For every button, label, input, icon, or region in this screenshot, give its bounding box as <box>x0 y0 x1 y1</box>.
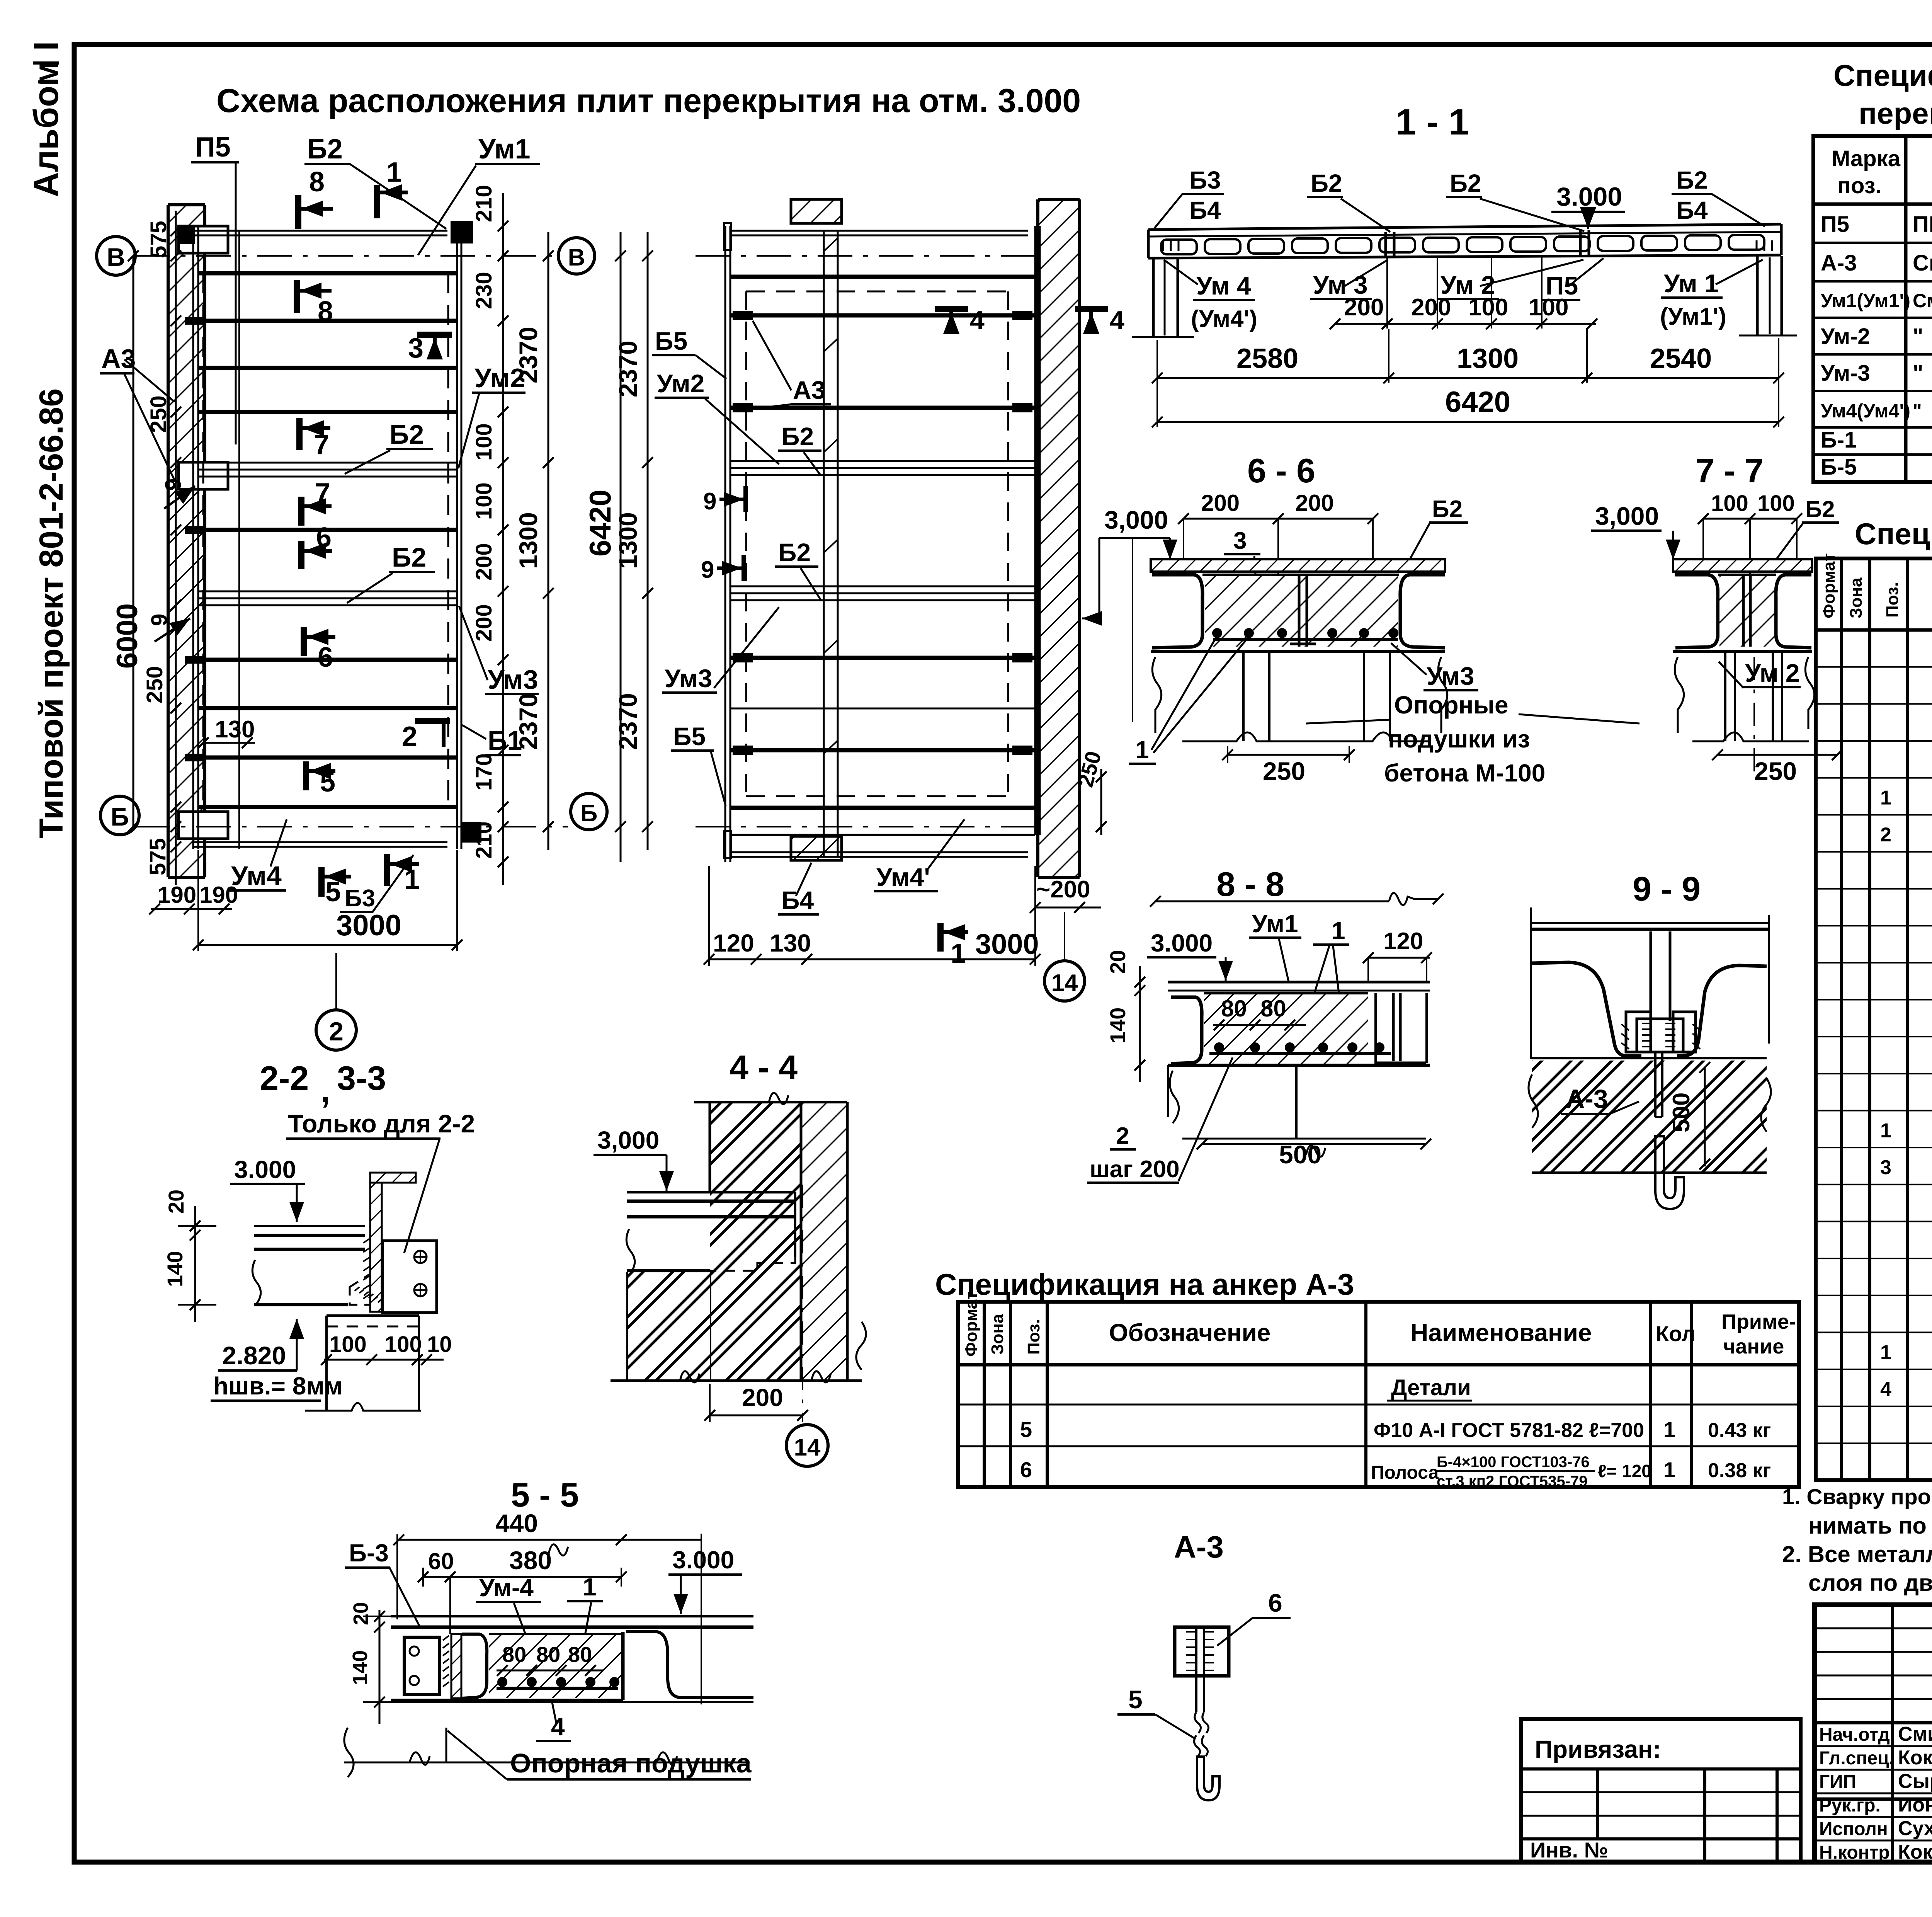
svg-text:Б4: Б4 <box>1676 196 1708 224</box>
section flag 3 up <box>408 333 452 364</box>
section flag 6b <box>304 627 335 673</box>
svg-text:Ум1(Ум1'): Ум1(Ум1') <box>1821 290 1910 312</box>
svg-text:Ум-2: Ум-2 <box>1821 324 1870 349</box>
svg-text:Б2: Б2 <box>389 419 424 449</box>
section 7-7 label B2 <box>1770 496 1839 568</box>
plan 2 beams with anchors <box>730 311 1035 755</box>
svg-text:2: 2 <box>1880 824 1891 846</box>
svg-text:1: 1 <box>951 938 966 969</box>
svg-text:Только для 2-2: Только для 2-2 <box>288 1109 475 1138</box>
detail 44 axis <box>802 1185 803 1422</box>
detail 22 dims 100 100 10 <box>321 1332 452 1365</box>
flag 4b plan2 <box>1075 306 1124 335</box>
svg-text:170: 170 <box>471 753 497 791</box>
detail 55 label Um-4 <box>476 1574 541 1643</box>
label P5 top <box>191 132 239 444</box>
svg-text:200: 200 <box>1411 294 1451 321</box>
detail 22 connection plate <box>363 1238 437 1313</box>
svg-text:Ум 1: Ум 1 <box>1664 269 1719 298</box>
section flag 6a <box>301 522 332 569</box>
section 9-9 plates <box>1532 962 1767 1056</box>
svg-text:А-3: А-3 <box>1566 1084 1608 1113</box>
detail 55 level mark <box>668 1546 742 1614</box>
svg-text:1. Сварку производить электр: 1. Сварку производить электродами Э-42 п… <box>1782 1485 1932 1509</box>
detail 55 beam and block <box>391 1632 753 1700</box>
svg-text:Б2: Б2 <box>1450 169 1481 197</box>
label A3 plan2 <box>753 321 831 409</box>
section 8-8 rebar <box>1209 1042 1391 1054</box>
detail 22 level mark <box>230 1156 305 1222</box>
section 7-7 level mark <box>1591 502 1680 560</box>
plan 2 top plate rod <box>724 223 1028 250</box>
svg-text:2: 2 <box>329 1017 344 1046</box>
section 1-1 title <box>1396 102 1469 143</box>
svg-text:Б-3: Б-3 <box>349 1539 389 1567</box>
svg-text:2370: 2370 <box>614 340 642 397</box>
svg-text:5: 5 <box>1128 1685 1143 1714</box>
section 7-7 supports <box>1675 652 1814 781</box>
spec table 2 <box>1816 553 1932 1480</box>
section flag 7a <box>299 418 330 460</box>
svg-text:Б5: Б5 <box>673 722 706 751</box>
section flag 8 top <box>298 167 333 229</box>
svg-text:8 - 8: 8 - 8 <box>1216 865 1284 903</box>
svg-text:Спецификация монолитных уч: Спецификация монолитных участков Ум-1 ÷ … <box>1855 517 1932 551</box>
svg-text:1: 1 <box>1663 1457 1675 1482</box>
section 8-8 dim 120 <box>1363 928 1432 982</box>
plan 1 axis V circle left <box>97 237 135 275</box>
svg-text:9: 9 <box>701 557 714 583</box>
svg-text:Ум4: Ум4 <box>231 861 282 891</box>
svg-text:10: 10 <box>427 1332 452 1357</box>
svg-text:80: 80 <box>536 1642 560 1667</box>
svg-text:Сухова: Сухова <box>1898 1817 1932 1840</box>
svg-text:Ум3: Ум3 <box>488 664 538 695</box>
svg-text:Наименование: Наименование <box>1410 1319 1592 1347</box>
svg-text:200: 200 <box>1295 490 1334 516</box>
section 7-7 top dims <box>1698 491 1802 576</box>
section 8-8 labels top <box>1249 910 1349 1040</box>
svg-text:2370: 2370 <box>514 693 543 750</box>
svg-text:7: 7 <box>315 478 330 509</box>
svg-text:250: 250 <box>142 666 167 703</box>
dim 130 inner <box>198 716 255 748</box>
section 8-8 dim 80 80 <box>1213 996 1306 1030</box>
label Um4p <box>874 819 964 891</box>
project label vertical <box>33 388 70 839</box>
svg-text:6 - 6: 6 - 6 <box>1247 451 1315 490</box>
section 1-1 dim 6420 <box>1152 386 1784 427</box>
svg-text:Типовой проект 801-2-66.86: Типовой проект 801-2-66.86 <box>33 388 70 839</box>
spec table 3 rows <box>1020 1375 1771 1490</box>
svg-text:Б-5: Б-5 <box>1821 455 1857 480</box>
svg-text:поз.: поз. <box>1837 173 1882 198</box>
svg-text:Б2: Б2 <box>778 538 811 567</box>
section 6-6 dim 250 <box>1222 746 1355 785</box>
svg-text:(Ум1'): (Ум1') <box>1660 303 1726 330</box>
section 1-1 slab band <box>1148 224 1781 258</box>
detail 55 bottom structure <box>344 1702 750 1777</box>
svg-text:Приме-: Приме- <box>1721 1310 1796 1333</box>
mid dim chain D <box>614 232 653 850</box>
svg-text:1: 1 <box>1880 1119 1891 1142</box>
svg-text:Кол: Кол <box>1656 1321 1696 1346</box>
plan 1 B2 beam bands <box>198 463 457 605</box>
svg-text:Ум 2: Ум 2 <box>1745 659 1800 687</box>
svg-text:100: 100 <box>1757 491 1795 516</box>
svg-text:1 - 1: 1 - 1 <box>1396 102 1469 143</box>
plan 1 beam lines <box>198 321 457 758</box>
plan 1 top plate rod <box>179 221 473 244</box>
label A3 left <box>100 344 175 480</box>
section flag 5b bottom <box>321 867 351 907</box>
plan 2 thin line <box>730 708 1035 710</box>
svg-text:200: 200 <box>1344 294 1384 321</box>
svg-text:Б-4×100 ГОСТ103-76: Б-4×100 ГОСТ103-76 <box>1437 1454 1590 1471</box>
svg-text:Ум4': Ум4' <box>876 863 930 891</box>
svg-text:": " <box>1913 400 1922 422</box>
detail 22 lower block <box>305 1316 421 1411</box>
svg-text:200: 200 <box>742 1384 783 1411</box>
svg-text:0.38 кг: 0.38 кг <box>1708 1459 1771 1482</box>
A-3 anchor rod <box>1194 1676 1219 1800</box>
section 9-9 top lines <box>1530 907 1770 1059</box>
detail 22 dims 20 140 <box>163 1190 216 1322</box>
svg-text:Б-1: Б-1 <box>1821 427 1857 453</box>
section 1-1 label Um3 <box>1310 260 1388 299</box>
flag 9b plan2 <box>701 555 744 583</box>
label B2 band2 <box>347 542 435 603</box>
label Um2 plan1 <box>458 363 526 468</box>
svg-text:3,000: 3,000 <box>1104 506 1168 534</box>
svg-text:200: 200 <box>1201 490 1240 516</box>
section 1-1 columns <box>1132 256 1797 337</box>
detail 55 slab lines <box>391 1616 753 1702</box>
plan 1 anchor marks A3 <box>185 317 206 761</box>
svg-text:20: 20 <box>349 1602 372 1625</box>
section 9-9 anchor assembly <box>1621 1012 1700 1052</box>
svg-text:3.000: 3.000 <box>1151 929 1213 957</box>
plan 1 axis V line <box>135 255 560 257</box>
section 6-6 label B2 <box>1405 496 1468 568</box>
svg-text:подушки из: подушки из <box>1388 725 1530 753</box>
svg-text:6: 6 <box>318 642 333 673</box>
svg-text:3.000: 3.000 <box>1556 182 1622 211</box>
svg-text:Б: Б <box>580 800 598 827</box>
svg-text:Б2: Б2 <box>1432 496 1463 523</box>
svg-text:1300: 1300 <box>614 512 642 569</box>
label B1 <box>462 725 522 756</box>
A-3 detail title <box>1174 1530 1224 1564</box>
spec table 2 title <box>1855 517 1932 551</box>
svg-text:Б2: Б2 <box>392 542 426 572</box>
svg-text:2: 2 <box>1116 1123 1129 1149</box>
section 7-7 label Um2 <box>1719 659 1801 688</box>
svg-text:14: 14 <box>1051 970 1078 996</box>
svg-text:8: 8 <box>318 296 333 327</box>
svg-text:230: 230 <box>471 272 497 309</box>
detail 44 level mark <box>594 1126 674 1191</box>
svg-text:575: 575 <box>146 221 171 258</box>
svg-text:Формат: Формат <box>1820 553 1838 618</box>
svg-text:2-2: 2-2 <box>260 1059 309 1097</box>
svg-text:2580: 2580 <box>1236 343 1298 374</box>
section 9-9 ground <box>1529 1058 1771 1173</box>
section 6-6 level mark arrow <box>1157 538 1177 560</box>
svg-text:слоя по двум слоям грун: слоя по двум слоям грунтовки. <box>1808 1570 1932 1596</box>
svg-text:5 - 5: 5 - 5 <box>511 1476 579 1514</box>
section 1-1 dim row 2 <box>1152 329 1784 427</box>
label Um4 <box>229 819 287 891</box>
section 6-6 label 3 <box>1224 528 1260 615</box>
detail 55 label 4 <box>536 1701 571 1741</box>
svg-text:200: 200 <box>471 604 497 642</box>
section 1-1 label B2 a <box>1307 169 1390 232</box>
svg-text:130: 130 <box>215 716 255 743</box>
section 1-1 label P5 <box>1543 258 1604 300</box>
detail 22 weld note <box>211 1372 343 1401</box>
plan 1 bottom plate rod <box>193 822 481 847</box>
section 7-7 title <box>1696 451 1764 490</box>
detail 4-4 title <box>730 1048 798 1086</box>
svg-text:120: 120 <box>713 929 754 957</box>
section 9-9 dim 500 <box>1668 1062 1710 1170</box>
svg-text:3: 3 <box>1233 528 1247 554</box>
svg-text:1: 1 <box>583 1573 597 1601</box>
svg-text:1300: 1300 <box>514 512 543 569</box>
section 1-1 level mark <box>1551 182 1625 229</box>
svg-text:4: 4 <box>1880 1378 1891 1401</box>
svg-text:210: 210 <box>471 185 497 222</box>
svg-text:3.000: 3.000 <box>672 1546 734 1574</box>
svg-text:Н.контр.: Н.контр. <box>1819 1842 1895 1863</box>
svg-text:Схема расположения плит пер: Схема расположения плит перекрытия на от… <box>216 82 1081 119</box>
mid dim 6420 <box>583 232 626 862</box>
flag 4a plan2 <box>935 306 985 335</box>
svg-text:Б4: Б4 <box>1189 196 1221 224</box>
svg-text:Сыркин: Сыркин <box>1898 1770 1932 1793</box>
svg-text:190: 190 <box>199 882 238 908</box>
svg-text:Ум1: Ум1 <box>478 134 531 165</box>
section 8-8 dims 20 140 <box>1105 950 1145 1082</box>
detail 44 wall <box>694 1093 847 1381</box>
svg-text:20: 20 <box>164 1190 188 1214</box>
section flag 1 top <box>377 157 408 218</box>
notes <box>1782 1485 1932 1596</box>
svg-text:1: 1 <box>1135 736 1149 764</box>
only for 2-2 note <box>286 1109 475 1253</box>
section 1-1 label Um4 <box>1164 260 1257 332</box>
flag 9a plan2 <box>703 486 746 515</box>
svg-text:3000: 3000 <box>975 928 1039 960</box>
detail 44 circle 14 <box>786 1425 828 1466</box>
support cushions note <box>1306 691 1639 787</box>
spec table 3 <box>958 1291 1799 1487</box>
section 8-8 title <box>1216 865 1284 903</box>
section 9-9 beam web <box>1651 931 1670 1021</box>
svg-text:3,000: 3,000 <box>1595 502 1659 530</box>
axis circle V mid <box>558 238 595 274</box>
label B2 top <box>304 134 446 229</box>
svg-text:3: 3 <box>408 333 423 364</box>
svg-text:Поз.: Поз. <box>1024 1319 1043 1355</box>
plan 2 bottom rod <box>724 831 1028 858</box>
plan 1 axis B circle left <box>100 796 139 835</box>
svg-text:2.820: 2.820 <box>222 1341 286 1370</box>
svg-text:100: 100 <box>329 1332 367 1357</box>
svg-text:210: 210 <box>471 821 497 859</box>
svg-text:1: 1 <box>1880 787 1891 809</box>
svg-text:20: 20 <box>1105 950 1130 974</box>
title block main <box>1815 1605 1932 1862</box>
section flag 7b <box>301 478 332 526</box>
label B5 top <box>652 327 726 379</box>
plan 1 wall pilasters <box>179 226 228 839</box>
svg-text:Формат: Формат <box>962 1291 981 1357</box>
section 1-1 label B2 b <box>1446 169 1584 231</box>
svg-text:140: 140 <box>349 1650 372 1685</box>
svg-text:500: 500 <box>1668 1093 1695 1132</box>
label Um1 top <box>418 134 540 255</box>
svg-text:hшв.= 8мм: hшв.= 8мм <box>213 1372 343 1400</box>
label B3 bottom <box>340 855 413 912</box>
svg-text:Ум1: Ум1 <box>1252 910 1298 938</box>
svg-text:6: 6 <box>1020 1457 1032 1482</box>
svg-text:Смирнов: Смирнов <box>1898 1723 1932 1745</box>
svg-text:Опорные: Опорные <box>1394 691 1509 719</box>
label B4 <box>778 863 819 914</box>
svg-text:А3: А3 <box>101 344 136 374</box>
svg-text:6420: 6420 <box>583 489 617 557</box>
svg-text:250: 250 <box>1263 757 1305 785</box>
svg-text:5: 5 <box>1020 1417 1032 1442</box>
svg-text:Ум-3: Ум-3 <box>1821 361 1870 386</box>
detail 2-2 3-3 title <box>260 1059 386 1110</box>
svg-text:1: 1 <box>1880 1341 1891 1364</box>
svg-text:2: 2 <box>402 721 417 752</box>
svg-text:ГИП: ГИП <box>1819 1772 1856 1792</box>
svg-text:ℓ= 120: ℓ= 120 <box>1598 1461 1651 1481</box>
svg-text:100: 100 <box>1468 294 1508 321</box>
svg-text:П5: П5 <box>195 132 231 163</box>
svg-text:6420: 6420 <box>1445 386 1510 419</box>
svg-text:5: 5 <box>320 767 335 798</box>
album label vertical <box>27 41 66 197</box>
main title <box>216 82 1081 119</box>
svg-text:В: В <box>568 244 585 271</box>
svg-text:6: 6 <box>1268 1588 1282 1617</box>
svg-text:Спецификация на анкер А-3: Спецификация на анкер А-3 <box>935 1267 1354 1301</box>
svg-text:120: 120 <box>1383 928 1423 955</box>
svg-text:": " <box>1913 324 1923 349</box>
detail 55 dim 440 <box>393 1509 701 1704</box>
section 6-6 top dims <box>1178 490 1378 576</box>
svg-text:Кокрев: Кокрев <box>1898 1747 1932 1769</box>
svg-text:бетона М-100: бетона М-100 <box>1384 759 1545 787</box>
plan2 level mark 3000 <box>1082 506 1168 722</box>
svg-text:100: 100 <box>471 482 497 520</box>
svg-text:Исполн: Исполн <box>1819 1819 1888 1839</box>
svg-text:чание: чание <box>1723 1335 1784 1358</box>
A-3 label 5 <box>1117 1685 1195 1738</box>
svg-text:100: 100 <box>471 423 497 461</box>
svg-text:Б2: Б2 <box>1805 496 1835 522</box>
section 7-7 dim 250 <box>1712 749 1843 785</box>
svg-text:4: 4 <box>551 1713 565 1741</box>
svg-text:5: 5 <box>325 877 341 907</box>
svg-text:3: 3 <box>1880 1156 1891 1179</box>
plan1 dim 6000 <box>111 250 144 832</box>
svg-text:200: 200 <box>471 543 497 581</box>
section 6-6 label 1 <box>1129 637 1247 764</box>
section 1-1 label Um2 <box>1437 260 1583 299</box>
svg-text:Б: Б <box>111 802 129 831</box>
A-3 anchor block <box>1175 1627 1229 1676</box>
svg-text:4: 4 <box>970 306 985 335</box>
svg-text:нимать по наименьшей толщин: нимать по наименьшей толщине свариваемых… <box>1808 1513 1932 1539</box>
svg-text:80: 80 <box>1260 996 1286 1021</box>
section 8-8 dim 500 <box>1197 1139 1431 1169</box>
svg-text:Обозначение: Обозначение <box>1109 1319 1270 1347</box>
svg-text:80: 80 <box>568 1642 592 1667</box>
svg-text:0.43 кг: 0.43 кг <box>1708 1419 1771 1442</box>
svg-text:60: 60 <box>428 1548 454 1574</box>
section 6-6 label Um3 <box>1391 643 1478 690</box>
svg-text:3-3: 3-3 <box>337 1059 386 1097</box>
label B5 bottom <box>671 722 726 806</box>
label B2 plan2 a <box>778 422 821 475</box>
svg-text:Б2: Б2 <box>781 422 814 451</box>
section 6-6 slab <box>1151 559 1445 652</box>
svg-text:Ионова: Ионова <box>1898 1794 1932 1816</box>
svg-text:100: 100 <box>384 1332 422 1357</box>
svg-text:100: 100 <box>1711 491 1748 516</box>
svg-text:1: 1 <box>404 864 420 895</box>
privyazan block <box>1521 1719 1801 1862</box>
svg-text:Б2: Б2 <box>307 134 343 165</box>
svg-text:7 - 7: 7 - 7 <box>1696 451 1764 490</box>
label B2 plan2 b <box>775 538 821 600</box>
svg-text:4 - 4: 4 - 4 <box>730 1048 798 1086</box>
svg-text:Кокрев: Кокрев <box>1898 1841 1932 1863</box>
detail 5-5 title <box>511 1476 579 1514</box>
svg-text:1: 1 <box>1332 917 1345 945</box>
plan 2 B2 bands <box>730 461 1035 600</box>
svg-text:Б3: Б3 <box>345 885 375 912</box>
section 8-8 top break line <box>1150 893 1444 907</box>
section 6-6 supports <box>1152 652 1447 741</box>
svg-text:14: 14 <box>794 1434 821 1461</box>
svg-text:Ум3: Ум3 <box>665 664 712 693</box>
svg-text:1300: 1300 <box>1457 343 1519 374</box>
svg-text:575: 575 <box>145 838 170 875</box>
svg-text:8: 8 <box>309 167 325 197</box>
section 8-8 slab <box>1168 982 1430 1065</box>
svg-text:Гл.спец.: Гл.спец. <box>1819 1748 1894 1769</box>
spec table 1 <box>1813 136 1932 482</box>
section 9-9 anchor rod <box>1655 1052 1684 1209</box>
spec table 1 rows <box>1821 212 1932 480</box>
svg-text:,: , <box>321 1071 330 1110</box>
svg-text:Ум-4: Ум-4 <box>479 1574 534 1602</box>
section flag 8 inner <box>297 280 333 327</box>
svg-text:Привязан:: Привязан: <box>1535 1735 1661 1763</box>
svg-text:3,000: 3,000 <box>597 1126 659 1154</box>
svg-text:Рук.гр.: Рук.гр. <box>1819 1795 1881 1816</box>
plan 2 inner dashed rect <box>746 291 1008 796</box>
section flag 2 <box>402 721 450 752</box>
flag 1 plan2 bottom <box>940 923 968 969</box>
